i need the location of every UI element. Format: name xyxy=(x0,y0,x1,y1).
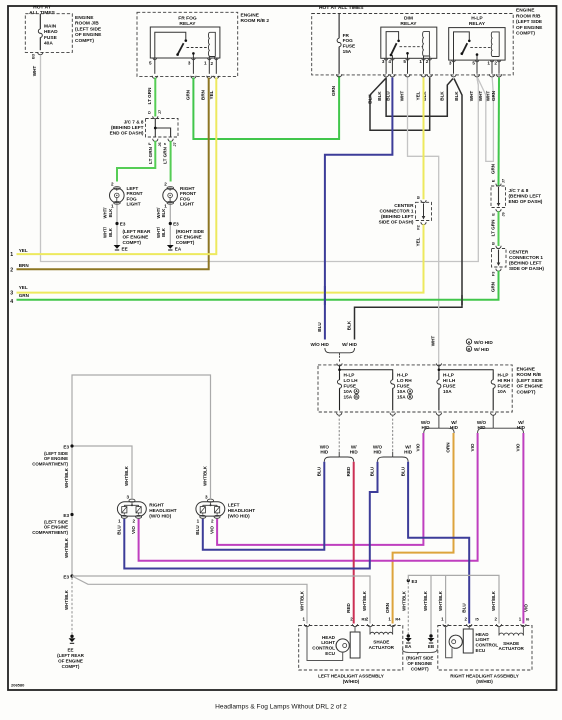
svg-text:2: 2 xyxy=(494,61,497,66)
wire WHT H-LP pin5 left leg xyxy=(477,78,478,86)
svg-text:A: A xyxy=(468,339,471,344)
right headlight assembly box xyxy=(438,626,532,671)
wire WHT main head fuse to H-LP relay pin 5 xyxy=(41,55,479,261)
svg-text:ORN: ORN xyxy=(385,602,390,613)
label W/ HID (fuse3) xyxy=(450,420,459,430)
connector FR FOG fuse output xyxy=(337,74,342,77)
svg-text:OF ENGINE: OF ENGINE xyxy=(407,661,432,666)
svg-text:WHT: WHT xyxy=(32,66,37,77)
svg-text:HEADLIGHT: HEADLIGHT xyxy=(228,508,255,513)
center connector 1 (YEL) xyxy=(416,202,432,220)
ground EE xyxy=(70,635,73,638)
J/C internal wire xyxy=(497,187,501,207)
svg-text:SHADE: SHADE xyxy=(503,641,519,646)
junction fuse bus 2 xyxy=(438,368,441,371)
connector FR FOG relay pin 2 xyxy=(214,76,219,79)
wire WHT/BLK branch to right assembly pin1 xyxy=(445,575,447,623)
svg-text:3: 3 xyxy=(10,291,13,297)
bulbs right headlight (W/O HID) xyxy=(122,503,142,515)
svg-text:1: 1 xyxy=(487,61,490,66)
label left front fog light xyxy=(127,186,143,207)
svg-text:WHT/: WHT/ xyxy=(103,207,108,219)
wire BLK DIM pin3 to H-LP pin3 xyxy=(386,78,453,117)
svg-text:J7: J7 xyxy=(500,179,505,183)
connector DIM relay x=386.1 xyxy=(384,74,389,77)
split fuse1 input xyxy=(325,348,340,353)
svg-text:2: 2 xyxy=(132,519,135,524)
DIM relay contact feed from pin 3 xyxy=(386,32,399,59)
svg-text:WHT: WHT xyxy=(400,91,405,102)
wire VIO fuse4 W/O HID to right headlight pin2 xyxy=(139,433,478,561)
svg-text:10A: 10A xyxy=(443,389,452,394)
H-LP relay contact feed from pin 3 xyxy=(454,32,470,60)
svg-text:D: D xyxy=(147,111,152,114)
svg-text:E3: E3 xyxy=(63,575,69,580)
connector FR FOG relay pin 3 xyxy=(191,76,196,79)
svg-text:CENTER: CENTER xyxy=(509,249,529,254)
svg-text:J7: J7 xyxy=(157,110,162,114)
svg-text:J/C 7 & 8: J/C 7 & 8 xyxy=(509,188,529,193)
svg-text:OF ENGINE: OF ENGINE xyxy=(75,32,102,38)
label HEAD LIGHT CONTROL ECU (left) xyxy=(312,635,335,656)
svg-text:E3: E3 xyxy=(412,579,418,584)
svg-text:RED: RED xyxy=(346,602,351,612)
wire YEL center connector to row 3 xyxy=(17,224,424,292)
DIM pin2 stub xyxy=(429,56,431,58)
svg-text:LIGHT: LIGHT xyxy=(127,202,141,207)
svg-text:OF ENGINE: OF ENGINE xyxy=(516,25,543,31)
connector J/C out pin F xyxy=(153,139,158,142)
connector left assembly pin4 xyxy=(390,624,395,627)
svg-text:H-LP: H-LP xyxy=(344,372,355,377)
svg-text:LIGHT: LIGHT xyxy=(321,640,335,645)
svg-text:WHT: WHT xyxy=(485,91,490,102)
connector pin1 left headlight (W/O HID) xyxy=(200,515,206,518)
split fuse1 output xyxy=(324,457,339,462)
DIM relay pin stub x=386.1 xyxy=(385,58,387,74)
wire FR FOG fuse to connector xyxy=(338,50,340,74)
wire fuse feed xyxy=(39,14,41,26)
svg-text:GRN: GRN xyxy=(491,90,496,101)
svg-text:2: 2 xyxy=(211,519,214,524)
H-LP relay actuating link xyxy=(470,47,492,49)
svg-text:WHT/BLK: WHT/BLK xyxy=(438,590,443,611)
engine room J/B box (main head fuse) xyxy=(25,14,72,53)
svg-text:EE: EE xyxy=(122,246,128,251)
svg-text:1: 1 xyxy=(197,519,200,524)
svg-text:B: B xyxy=(468,347,471,352)
H-LP relay pin stub x=477 xyxy=(476,60,478,74)
svg-text:RELAY: RELAY xyxy=(400,21,417,27)
svg-text:WHT/BLK: WHT/BLK xyxy=(64,537,69,558)
label SHADE ACTUATOR (left) xyxy=(369,640,395,650)
label HEAD LIGHT CONTROL ECU (right) xyxy=(476,632,499,653)
svg-text:BLU: BLU xyxy=(195,525,200,535)
svg-text:WHT/: WHT/ xyxy=(156,207,161,219)
wire WHT DIM pin5 to H-LP HI LH fuse xyxy=(408,78,439,364)
H-LP relay fixed contact xyxy=(468,40,471,43)
FR FOG relay fixed contact xyxy=(185,39,188,42)
label ENGINE ROOM R/B xyxy=(516,8,543,37)
wire right assembly pin1 to lamp xyxy=(446,627,452,658)
wire pin5 stub xyxy=(154,58,156,74)
svg-text:BLU: BLU xyxy=(370,466,375,476)
svg-text:GRN: GRN xyxy=(491,281,496,292)
connector right assembly pin3 xyxy=(496,624,501,627)
svg-text:W/ HID: W/ HID xyxy=(342,342,357,347)
svg-text:GRN: GRN xyxy=(19,293,30,298)
connector pin1 right headlight (W/O HID) xyxy=(121,515,127,518)
svg-text:ENGINE: ENGINE xyxy=(517,367,536,373)
label left side of engine compartment xyxy=(32,520,68,535)
connector fuse output x=493.2 xyxy=(491,413,496,416)
svg-text:FUSE: FUSE xyxy=(443,383,456,388)
svg-text:SIDE OF DASH): SIDE OF DASH) xyxy=(379,219,414,224)
fuse MAIN HEAD FUSE 40A xyxy=(39,26,41,29)
split fuse2 output xyxy=(378,457,393,462)
igniter box (left) xyxy=(350,632,360,658)
fuse H-LP LO RH FUSE xyxy=(392,373,394,380)
svg-text:ENGINE: ENGINE xyxy=(75,15,94,21)
svg-text:EA: EA xyxy=(405,644,412,649)
svg-text:LT GRN: LT GRN xyxy=(148,146,153,163)
svg-text:COMPT): COMPT) xyxy=(176,240,195,245)
engine room R/B box (relays+fuse) xyxy=(312,14,514,75)
svg-text:2: 2 xyxy=(210,61,213,66)
svg-text:H-LP: H-LP xyxy=(471,16,483,22)
svg-text:HEAD: HEAD xyxy=(322,635,336,640)
svg-text:LT GRN: LT GRN xyxy=(491,219,496,236)
bulbs left headlight (W/O HID) xyxy=(200,503,220,515)
splice E3 (rail lower) xyxy=(70,574,73,577)
coil SHADE ACTUATOR (right) xyxy=(499,633,523,635)
svg-text:HID: HID xyxy=(320,450,329,455)
label (RIGHT SIDE xyxy=(176,229,204,245)
label left side of engine compartment xyxy=(32,451,68,466)
FR FOG relay pin 1 stub xyxy=(208,57,210,59)
label CENTER CONNECTOR 1 (behind left side of dash) xyxy=(509,249,544,270)
wire left assembly pin3 to shade actuator xyxy=(369,627,371,635)
DIM relay pin notches xyxy=(384,58,431,60)
svg-text:206580: 206580 xyxy=(11,683,25,688)
svg-text:B: B xyxy=(416,196,421,199)
svg-text:(LEFT REAR: (LEFT REAR xyxy=(57,653,84,658)
svg-text:FR FOG: FR FOG xyxy=(178,15,197,21)
label left headlight (W/O HID) xyxy=(228,503,255,519)
svg-text:BLK: BLK xyxy=(347,320,352,330)
pin numbers left assembly xyxy=(303,617,402,622)
DIM pin1 stub xyxy=(423,56,425,58)
wire BRN FR FOG pin1 to connector row 2 xyxy=(17,78,209,270)
svg-text:1: 1 xyxy=(164,204,167,209)
left headlight assembly box xyxy=(299,626,403,671)
svg-text:H-LP: H-LP xyxy=(397,372,408,377)
svg-text:HOT AT ALL TIMES: HOT AT ALL TIMES xyxy=(319,5,364,11)
H-LP relay pin stub x=492 xyxy=(491,60,493,74)
svg-text:15A: 15A xyxy=(343,49,352,54)
svg-text:1: 1 xyxy=(419,59,422,64)
svg-text:WHT/BLK: WHT/BLK xyxy=(402,590,407,611)
svg-text:10A: 10A xyxy=(344,389,353,394)
svg-text:FUSE: FUSE xyxy=(498,383,511,388)
engine room R/B fuse box xyxy=(318,365,512,412)
svg-text:B: B xyxy=(409,395,412,399)
stem fuse2 split xyxy=(392,452,394,457)
svg-text:YEL: YEL xyxy=(19,285,28,290)
wire WHT/BLK fog ground x=170.3 xyxy=(169,205,171,245)
svg-text:OF ENGINE: OF ENGINE xyxy=(176,235,202,240)
ground EA xyxy=(407,634,410,637)
svg-text:GRN: GRN xyxy=(331,85,336,96)
wire LT GRN FR FOG pin5 to J/C 7&8 xyxy=(154,78,156,117)
svg-text:WHT/BLK: WHT/BLK xyxy=(124,465,129,486)
ground EA xyxy=(167,245,174,249)
svg-text:2: 2 xyxy=(426,59,429,64)
connector J/C out pin e xyxy=(168,139,173,142)
svg-text:CONNECTOR 1: CONNECTOR 1 xyxy=(509,255,543,260)
coil SHADE ACTUATOR (left) xyxy=(370,632,393,634)
svg-text:(BEHIND LEFT: (BEHIND LEFT xyxy=(111,125,144,130)
svg-text:W/O HID: W/O HID xyxy=(311,342,330,347)
svg-text:E3: E3 xyxy=(120,222,126,227)
svg-text:3: 3 xyxy=(126,495,129,500)
svg-text:HID: HID xyxy=(350,450,359,455)
splice E3 xyxy=(169,222,172,225)
fuse H-LP HI LH FUSE xyxy=(438,373,440,380)
wire GRN center connector to row 4 xyxy=(17,271,499,300)
splice E3 (rail upper) xyxy=(70,444,73,447)
connector pin3 left headlight (W/O HID) xyxy=(208,499,214,502)
svg-text:COMPT): COMPT) xyxy=(516,31,535,37)
svg-text:LEFT: LEFT xyxy=(228,503,240,508)
relay FR FOG RELAY body xyxy=(150,27,220,58)
svg-text:VIO: VIO xyxy=(470,443,475,451)
H-LP relay pin 5 stub xyxy=(476,56,478,60)
svg-text:(LEFT REAR: (LEFT REAR xyxy=(123,229,151,234)
label LEFT HEADLIGHT ASSEMBLY (W/HID) xyxy=(318,673,384,684)
relay H-LP RELAY body xyxy=(449,28,505,61)
wire fuse to connector xyxy=(39,41,41,51)
svg-text:YEL: YEL xyxy=(416,91,421,100)
svg-text:END OF DASH): END OF DASH) xyxy=(110,130,144,135)
svg-text:WHT/BLK: WHT/BLK xyxy=(299,590,304,611)
connector bottom left front fog light xyxy=(114,201,121,204)
svg-text:J/C 7 & 8: J/C 7 & 8 xyxy=(124,119,144,124)
svg-text:(BEHIND LEFT: (BEHIND LEFT xyxy=(509,194,542,199)
svg-text:BLU: BLU xyxy=(317,466,322,476)
svg-text:LO RH: LO RH xyxy=(397,378,412,383)
svg-text:BRN: BRN xyxy=(201,89,206,100)
connector center connector 1 bottom (GRN) xyxy=(496,269,501,272)
label (LEFT REAR xyxy=(123,229,151,245)
junction fuse bus xyxy=(338,368,341,371)
svg-text:ECU: ECU xyxy=(476,648,486,653)
svg-text:ENGINE: ENGINE xyxy=(241,13,260,19)
label W/O HID (fuse2 out) xyxy=(373,445,383,455)
connector J/C 7&8 bottom (GRN) xyxy=(496,209,501,212)
svg-text:4: 4 xyxy=(10,299,13,305)
relay DIM RELAY body xyxy=(381,27,437,58)
label ENGINE ROOM R/B (fuse row) xyxy=(517,367,544,396)
wire WHT/BLK left headlight pin3 loop to E3 rail xyxy=(72,375,211,576)
svg-text:(LEFT SIDE: (LEFT SIDE xyxy=(517,378,544,384)
FR FOG relay arm pivot dot xyxy=(176,53,179,56)
label W/O HID (fuse4) xyxy=(477,420,487,430)
wire ORN fuse3 W/ HID to left HL assembly xyxy=(393,433,454,624)
header HOT AT ALL TIMES (left) xyxy=(29,4,55,15)
DIM relay pin5 contact dot xyxy=(406,52,409,55)
lamp body left headlight (W/O HID) xyxy=(196,502,225,516)
svg-text:(LEFT SIDE: (LEFT SIDE xyxy=(516,19,543,25)
svg-text:FR: FR xyxy=(343,33,350,38)
svg-text:EE: EE xyxy=(67,648,73,653)
wire GRN FR FOG pin3 to FR FOG fuse xyxy=(193,76,339,139)
wire YEL FR FOG pin2 to connector row 1 xyxy=(17,78,217,255)
svg-text:1: 1 xyxy=(204,61,207,66)
wire pin3 stub xyxy=(192,58,194,74)
internal bus fuse3-fuse4 xyxy=(439,366,493,373)
split fuse3 output xyxy=(424,428,439,433)
ground EB xyxy=(429,634,432,637)
junction dot J/C xyxy=(154,127,157,130)
connector center connector 1 top (YEL) xyxy=(421,200,426,203)
DIM relay pin 5 stub xyxy=(407,55,409,59)
svg-text:WHT/: WHT/ xyxy=(103,226,108,238)
svg-text:END OF DASH): END OF DASH) xyxy=(509,199,543,204)
svg-text:5: 5 xyxy=(472,61,475,66)
svg-text:3: 3 xyxy=(188,61,191,66)
svg-text:WHT/BLK: WHT/BLK xyxy=(202,465,207,486)
stem fuse1 split xyxy=(338,452,340,457)
wire left assembly pin4 to shade actuator xyxy=(392,627,394,635)
svg-text:RED: RED xyxy=(346,466,351,476)
ground EE xyxy=(114,245,121,249)
svg-text:BRN: BRN xyxy=(19,263,30,268)
label W/O HID (fuse1 out) xyxy=(320,445,330,455)
junction block J/C 7&8 (left) xyxy=(146,119,179,138)
svg-text:ROOM R/B: ROOM R/B xyxy=(516,13,541,19)
svg-text:WHT/BLK: WHT/BLK xyxy=(423,590,428,611)
connector right assembly pin2 xyxy=(467,624,472,627)
svg-text:FUSE: FUSE xyxy=(344,383,357,388)
label J/C 7&8 behind left end of dash xyxy=(110,119,144,135)
splice E3 (right) xyxy=(407,579,410,582)
svg-text:HEAD: HEAD xyxy=(476,632,490,637)
DIM relay pin stub x=429.7 xyxy=(429,58,431,74)
svg-text:A: A xyxy=(409,390,412,394)
svg-text:RIGHT HEADLIGHT ASSEMBLY: RIGHT HEADLIGHT ASSEMBLY xyxy=(450,673,519,678)
DIM relay coil xyxy=(423,32,430,56)
DIM relay fixed contact xyxy=(397,40,400,43)
DIM relay pin stub x=392.4 xyxy=(391,58,393,74)
svg-text:LIGHT: LIGHT xyxy=(180,202,194,207)
svg-text:YEL: YEL xyxy=(19,248,28,253)
svg-text:VIO: VIO xyxy=(416,443,421,451)
svg-text:W/O HID: W/O HID xyxy=(474,340,493,345)
connector top left front fog light xyxy=(114,187,121,190)
svg-text:R4: R4 xyxy=(395,617,401,622)
svg-text:FUSE: FUSE xyxy=(343,44,356,49)
wire LT GRN to left front fog light xyxy=(117,141,155,182)
svg-text:VIO: VIO xyxy=(516,443,521,451)
wire BLU fuse2 W/O HID to right headlight pin1 xyxy=(124,462,377,569)
lamp head light control ECU (left) xyxy=(336,639,349,652)
svg-text:E3: E3 xyxy=(63,444,69,449)
svg-text:HEAD: HEAD xyxy=(44,29,58,35)
svg-text:LEFT HEADLIGHT ASSEMBLY: LEFT HEADLIGHT ASSEMBLY xyxy=(318,673,384,678)
svg-text:FUSE: FUSE xyxy=(397,383,410,388)
svg-text:H-LP: H-LP xyxy=(443,372,454,377)
svg-text:W/ HID: W/ HID xyxy=(474,347,490,352)
wire right assembly pin3 to shade actuator xyxy=(498,627,500,636)
svg-text:CONNECTOR 1: CONNECTOR 1 xyxy=(379,208,413,213)
svg-text:GRN: GRN xyxy=(185,89,190,100)
split stem xyxy=(339,353,341,355)
label MAIN HEAD FUSE 40A xyxy=(44,24,58,47)
lamp right front fog light xyxy=(163,188,178,203)
svg-text:VIO: VIO xyxy=(131,526,136,534)
dashed drop to fuse1 xyxy=(339,356,341,363)
svg-text:BLK: BLK xyxy=(108,208,113,218)
svg-text:CONTROL: CONTROL xyxy=(312,646,335,651)
svg-text:5: 5 xyxy=(403,59,406,64)
wire to FR FOG fuse xyxy=(338,14,340,36)
FR FOG relay pin3 contact dot xyxy=(192,52,195,55)
svg-text:B3: B3 xyxy=(31,53,36,59)
svg-text:2: 2 xyxy=(111,181,114,186)
label J/C 7&8 behind left end of dash xyxy=(509,188,543,204)
wire BLK (over rows) xyxy=(461,295,463,305)
svg-text:LIGHT: LIGHT xyxy=(476,637,490,642)
H-LP relay coil xyxy=(491,32,499,57)
svg-text:10A: 10A xyxy=(498,389,507,394)
engine room R/B 2 box xyxy=(137,12,238,76)
wire WHT H-LP pin5 to pin1 loop xyxy=(478,78,494,162)
svg-text:EA: EA xyxy=(175,246,182,251)
svg-text:A: A xyxy=(355,390,358,394)
svg-text:VIO: VIO xyxy=(209,526,214,534)
svg-text:BLK: BLK xyxy=(454,91,459,101)
FR FOG relay contact feed from pin 5 xyxy=(155,32,186,58)
svg-text:HEADLIGHT: HEADLIGHT xyxy=(149,508,176,513)
svg-text:BLK: BLK xyxy=(161,227,166,237)
svg-text:15A: 15A xyxy=(344,394,353,399)
svg-text:SHADE: SHADE xyxy=(373,640,389,645)
svg-text:LO LH: LO LH xyxy=(344,378,359,383)
svg-text:VIO: VIO xyxy=(524,604,529,612)
svg-text:2: 2 xyxy=(164,181,167,186)
svg-text:COMPARTMENT): COMPARTMENT) xyxy=(32,461,68,466)
wire BLU fuse1 W/O HID to left headlight pin1 xyxy=(203,462,324,550)
label FR FOG FUSE 15A xyxy=(343,33,356,54)
wire WHT diagonal into H-LP pin5 connector xyxy=(477,79,478,85)
connector pin B3 (J/B) xyxy=(38,52,43,55)
svg-text:GRN: GRN xyxy=(491,163,496,174)
connector center connector 1 top (GRN) xyxy=(496,246,501,249)
svg-text:(RIGHT SIDE: (RIGHT SIDE xyxy=(406,656,433,661)
svg-text:B: B xyxy=(355,395,358,399)
DIM relay pin stub x=407.5 xyxy=(407,58,409,74)
J/C 7&8 internal bus xyxy=(155,119,170,138)
svg-text:WHT/: WHT/ xyxy=(156,226,161,238)
connector FR FOG relay pin 5 xyxy=(152,76,157,79)
wire WHT/BLK dashed to EA ground xyxy=(407,582,409,636)
lamp left front fog light xyxy=(110,188,125,203)
svg-text:(BEHIND LEFT: (BEHIND LEFT xyxy=(381,214,414,219)
svg-text:3: 3 xyxy=(205,495,208,500)
svg-text:E3: E3 xyxy=(63,513,69,518)
H-LP relay pin notches xyxy=(452,60,501,62)
